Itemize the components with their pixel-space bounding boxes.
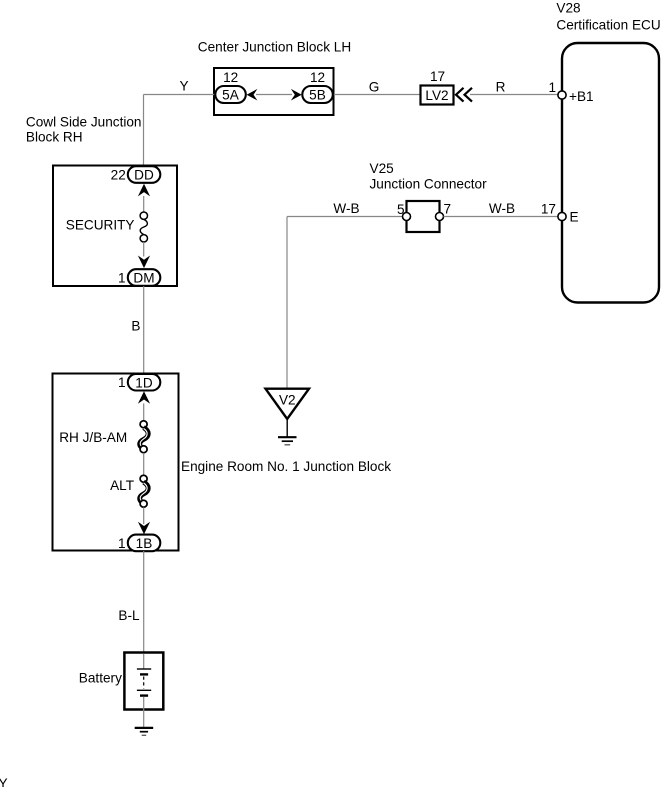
svg-text:V28: V28 <box>556 1 580 16</box>
svg-text:Cowl Side Junction: Cowl Side Junction <box>26 114 142 129</box>
svg-text:DD: DD <box>134 168 154 183</box>
wire fusible link to arrow <box>143 507 145 524</box>
wire 1D to fusible link <box>143 403 145 420</box>
svg-text:W-B: W-B <box>333 201 359 216</box>
wire inside CJB between arrows <box>256 94 292 96</box>
svg-text:5B: 5B <box>309 87 326 102</box>
connector terminal DD <box>128 166 161 183</box>
svg-text:7: 7 <box>444 201 452 216</box>
fuse SECURITY <box>140 212 147 242</box>
fusible link ALT <box>140 475 148 507</box>
svg-text:Junction Connector: Junction Connector <box>370 177 488 192</box>
svg-text:Engine Room No. 1 Junction Blo: Engine Room No. 1 Junction Block <box>181 459 391 474</box>
fusible link RH J/B-AM <box>140 421 148 453</box>
arrow into 5B (pointing right) <box>291 89 302 101</box>
pin circle +B1 <box>558 91 566 99</box>
svg-text:LV2: LV2 <box>425 88 448 103</box>
svg-text:E: E <box>570 210 579 225</box>
wire battery to ground <box>143 697 145 728</box>
svg-text:Y: Y <box>0 776 8 787</box>
svg-text:ALT: ALT <box>110 478 134 493</box>
wire DD to fuse <box>143 196 145 212</box>
svg-text:+B1: +B1 <box>569 89 594 104</box>
svg-text:B: B <box>131 318 140 333</box>
svg-text:SECURITY: SECURITY <box>66 218 135 233</box>
svg-text:12: 12 <box>310 70 325 85</box>
junction connector V25 box <box>407 201 440 232</box>
svg-text:1: 1 <box>118 536 126 551</box>
battery cell plates <box>137 669 151 696</box>
arrow into 5A (pointing left) <box>247 89 258 101</box>
svg-text:Battery: Battery <box>79 671 122 686</box>
wire B <box>143 286 145 374</box>
pin circle 7 <box>436 213 444 221</box>
svg-text:V2: V2 <box>279 393 296 408</box>
svg-text:22: 22 <box>111 168 126 183</box>
wire B-L <box>143 551 145 653</box>
svg-text:W-B: W-B <box>489 201 515 216</box>
svg-text:Block RH: Block RH <box>26 130 83 145</box>
arrow up into 1D <box>138 391 150 404</box>
svg-text:R: R <box>496 80 506 95</box>
wire G <box>334 94 421 96</box>
arrow up into DD <box>138 184 150 197</box>
svg-text:17: 17 <box>541 201 556 216</box>
junction block Center Junction Block LH box <box>214 68 334 115</box>
wire W-B left horizontal <box>287 216 403 218</box>
ground triangle V2 <box>266 389 310 419</box>
svg-text:17: 17 <box>430 69 445 84</box>
ground symbol below battery <box>135 728 154 735</box>
svg-text:1D: 1D <box>135 375 153 390</box>
junction block Engine Room No.1 Junction Block box <box>53 374 179 551</box>
svg-text:B-L: B-L <box>118 608 140 623</box>
svg-text:1: 1 <box>548 80 556 95</box>
svg-text:V25: V25 <box>370 161 394 176</box>
svg-text:RH J/B-AM: RH J/B-AM <box>59 430 127 445</box>
wire down to V2 ground <box>286 217 288 389</box>
pin circle E <box>558 212 566 220</box>
svg-text:Center Junction Block LH: Center Junction Block LH <box>198 40 351 55</box>
connector terminal 5A <box>215 86 246 103</box>
svg-text:DM: DM <box>133 271 154 286</box>
junction block Cowl Side Junction Block RH box <box>53 166 177 287</box>
arrow down into DM <box>138 256 150 269</box>
svg-text:Y: Y <box>179 78 188 93</box>
connector terminal DM <box>128 269 161 286</box>
wire triangle to ground <box>286 419 288 437</box>
svg-text:G: G <box>369 79 380 94</box>
connector terminal 1D <box>128 374 161 391</box>
chevron arrows at LV2 <box>456 88 472 102</box>
wire Y horizontal <box>144 94 216 96</box>
wire R <box>470 94 559 96</box>
svg-text:5A: 5A <box>222 87 240 102</box>
pin circle 5 <box>403 213 411 221</box>
ECU U-V28 Certification ECU outline <box>562 43 659 303</box>
svg-text:1: 1 <box>118 375 126 390</box>
svg-text:1B: 1B <box>136 536 153 551</box>
svg-text:1: 1 <box>118 270 126 285</box>
wire between fusible links <box>143 453 145 475</box>
wire fuse to arrow <box>143 242 145 257</box>
arrow down into 1B <box>138 522 150 535</box>
wire into battery <box>143 654 145 669</box>
wire Y vertical <box>143 95 145 168</box>
svg-text:12: 12 <box>223 70 238 85</box>
svg-text:Certification ECU: Certification ECU <box>556 18 660 33</box>
wire W-B right horizontal <box>444 216 559 218</box>
connector terminal 1B <box>128 535 161 552</box>
ground symbol V2 <box>278 437 297 445</box>
battery BAT box <box>124 653 163 710</box>
connector LV2 box <box>421 86 454 105</box>
connector terminal 5B <box>302 86 333 103</box>
